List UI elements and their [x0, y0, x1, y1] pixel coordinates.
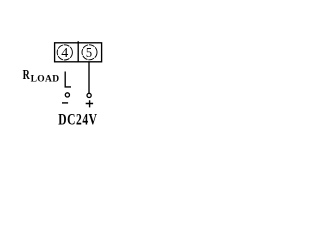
wire from terminal 5 down — [88, 62, 90, 93]
negative supply terminal node — [65, 93, 69, 97]
svg-text:LOAD: LOAD — [31, 75, 60, 85]
positive supply terminal node — [87, 93, 91, 97]
wire from terminal 4 down to load (with foot) — [65, 72, 71, 87]
svg-text:R: R — [23, 67, 31, 83]
svg-text:DC24V: DC24V — [58, 112, 97, 129]
terminal block outline — [55, 43, 102, 62]
terminal 4 circle — [57, 45, 72, 60]
terminal block divider — [77, 41, 79, 61]
plus polarity mark — [86, 100, 93, 107]
minus polarity mark — [62, 102, 68, 104]
svg-text:4: 4 — [61, 46, 68, 61]
svg-text:5: 5 — [86, 46, 92, 61]
terminal 5 circle — [82, 45, 97, 60]
